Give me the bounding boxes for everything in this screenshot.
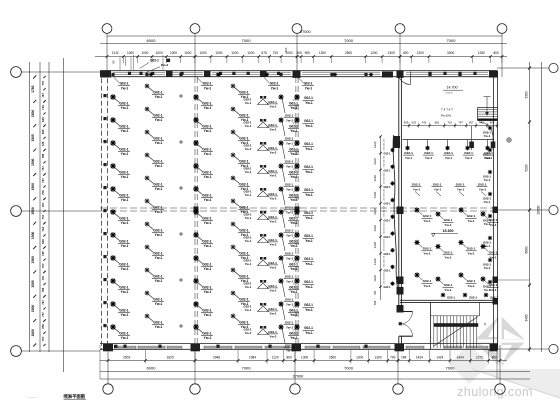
svg-text:Yw-1: Yw-1: [445, 156, 453, 160]
svg-text:G02-1: G02-1: [467, 247, 476, 251]
svg-text:645: 645: [41, 239, 45, 244]
svg-text:G02-1: G02-1: [268, 284, 277, 288]
svg-text:725: 725: [41, 251, 45, 256]
svg-text:3400: 3400: [524, 314, 528, 321]
svg-text:1220: 1220: [373, 241, 377, 248]
svg-text:410 410 410: 410 410 410: [384, 205, 386, 217]
svg-text:Yw-1: Yw-1: [484, 178, 491, 182]
svg-text:G02-1: G02-1: [304, 82, 313, 86]
svg-text:1000: 1000: [184, 51, 191, 55]
svg-text:1500: 1500: [31, 158, 35, 166]
svg-text:Yw-1: Yw-1: [467, 252, 475, 256]
svg-text:757: 757: [41, 80, 45, 85]
svg-text:G02-1: G02-1: [239, 228, 248, 232]
svg-text:G02-1: G02-1: [285, 344, 294, 348]
svg-text:Yw-1: Yw-1: [204, 175, 212, 179]
svg-text:Yw-1: Yw-1: [204, 290, 212, 294]
svg-text:1272: 1272: [476, 355, 483, 359]
svg-text:Yw-1: Yw-1: [305, 285, 313, 289]
svg-text:1200: 1200: [417, 51, 424, 55]
svg-text:Yw-1: Yw-1: [269, 289, 277, 293]
svg-text:300: 300: [296, 51, 302, 55]
svg-text:757: 757: [41, 214, 45, 219]
svg-text:G02-1: G02-1: [412, 183, 421, 187]
svg-text:G02-1: G02-1: [467, 279, 476, 283]
svg-text:G02-1: G02-1: [153, 113, 162, 117]
svg-text:Pw d5%: Pw d5%: [441, 113, 452, 117]
svg-text:780: 780: [373, 290, 377, 295]
svg-text:G02-1: G02-1: [285, 160, 294, 164]
svg-text:G02-1: G02-1: [239, 251, 248, 255]
svg-text:G02-1: G02-1: [384, 169, 392, 172]
svg-text:743: 743: [41, 227, 45, 232]
svg-text:Yw-1: Yw-1: [241, 233, 249, 237]
svg-text:G02-1: G02-1: [268, 307, 277, 311]
svg-text:Yw-1: Yw-1: [155, 210, 163, 214]
svg-text:Yw-1: Yw-1: [425, 156, 433, 160]
svg-text:Yw-1: Yw-1: [286, 187, 293, 191]
svg-text:Yw-1: Yw-1: [241, 325, 249, 329]
svg-text:1300: 1300: [375, 355, 382, 359]
svg-text:7000: 7000: [242, 366, 252, 371]
svg-text:G02-1: G02-1: [285, 229, 294, 233]
svg-text:Yw-1: Yw-1: [155, 279, 163, 283]
svg-text:G02-1: G02-1: [202, 170, 211, 174]
svg-text:Yw-1: Yw-1: [269, 220, 277, 224]
svg-text:Yw-1: Yw-1: [286, 164, 293, 168]
svg-text:784: 784: [401, 355, 407, 359]
svg-text:767: 767: [41, 93, 45, 98]
svg-text:Yw-1: Yw-1: [121, 221, 129, 225]
svg-text:Yw-1: Yw-1: [290, 336, 298, 340]
svg-text:Yw-1: Yw-1: [241, 141, 249, 145]
svg-text:767: 767: [41, 300, 45, 305]
svg-text:1600: 1600: [31, 329, 35, 337]
svg-text:G02-1: G02-1: [285, 183, 294, 187]
svg-text:G02-1: G02-1: [464, 151, 473, 155]
svg-text:1500: 1500: [31, 256, 35, 264]
svg-text:Yw-1: Yw-1: [121, 267, 129, 271]
svg-text:G02-1: G02-1: [289, 216, 298, 220]
svg-text:Yw-1: Yw-1: [269, 151, 277, 155]
svg-text:742: 742: [422, 121, 427, 125]
svg-text:G02-1: G02-1: [202, 216, 211, 220]
svg-text:G02-1: G02-1: [304, 188, 313, 192]
svg-text:Yw-1: Yw-1: [290, 267, 298, 271]
svg-text:G02-1: G02-1: [119, 239, 128, 243]
svg-text:xxxxxx: xxxxxx: [445, 92, 453, 95]
svg-text:G02-1: G02-1: [433, 183, 442, 187]
svg-text:Yw-1: Yw-1: [245, 147, 252, 151]
svg-text:G02-1: G02-1: [239, 90, 248, 94]
svg-text:7000: 7000: [242, 38, 252, 43]
svg-text:G02-1: G02-1: [268, 100, 277, 104]
svg-text:675: 675: [261, 51, 267, 55]
svg-text:Yw-1: Yw-1: [305, 124, 313, 128]
svg-text:G02-1: G02-1: [120, 82, 129, 86]
svg-text:G02-1: G02-1: [289, 285, 298, 289]
svg-text:G02-1: G02-1: [150, 59, 159, 63]
svg-text:Yw-1: Yw-1: [155, 95, 163, 99]
svg-text:743: 743: [41, 105, 45, 110]
svg-text:508: 508: [373, 300, 377, 305]
svg-text:981: 981: [435, 121, 440, 125]
svg-text:Yw-1: Yw-1: [204, 336, 212, 340]
svg-text:767: 767: [41, 202, 45, 207]
svg-text:G02-1: G02-1: [304, 142, 313, 146]
svg-text:Yw-1: Yw-1: [241, 118, 249, 122]
svg-text:15.300: 15.300: [443, 229, 454, 233]
svg-text:1220: 1220: [373, 158, 377, 165]
svg-text:G02-1: G02-1: [268, 238, 277, 242]
svg-text:G02-1: G02-1: [119, 331, 128, 335]
svg-text:7000: 7000: [344, 38, 354, 43]
svg-text:Yw-1: Yw-1: [305, 308, 313, 312]
svg-text:7000: 7000: [447, 38, 457, 43]
svg-text:G02-1: G02-1: [268, 215, 277, 219]
svg-text:Yw-1: Yw-1: [489, 223, 497, 227]
svg-text:1000: 1000: [141, 51, 148, 55]
svg-text:Yw-1: Yw-1: [290, 290, 298, 294]
svg-text:G02-1: G02-1: [239, 136, 248, 140]
svg-text:G02-1: G02-1: [153, 205, 162, 209]
svg-text:Yw-1: Yw-1: [286, 233, 293, 237]
svg-text:6000: 6000: [147, 366, 157, 371]
svg-text:G02-1: G02-1: [119, 308, 128, 312]
svg-text:Yw-1: Yw-1: [305, 239, 313, 243]
svg-text:900: 900: [305, 51, 311, 55]
svg-text:2500: 2500: [345, 51, 352, 55]
svg-text:Yw-1: Yw-1: [290, 152, 298, 156]
svg-text:663: 663: [490, 121, 495, 125]
svg-text:G02-1: G02-1: [239, 205, 248, 209]
svg-text:Yw-1: Yw-1: [155, 302, 163, 306]
svg-text:Yw-1: Yw-1: [204, 198, 212, 202]
svg-text:G02-1: G02-1: [153, 136, 162, 140]
svg-text:1500: 1500: [31, 232, 35, 240]
svg-text:410 410 410: 410 410 410: [384, 272, 386, 284]
svg-text:700: 700: [390, 355, 396, 359]
svg-text:14.700: 14.700: [447, 86, 458, 90]
svg-text:Yw-1: Yw-1: [286, 210, 293, 214]
svg-text:G02-1: G02-1: [384, 203, 392, 206]
svg-text:Yw-1: Yw-1: [305, 331, 313, 335]
svg-text:G02-1: G02-1: [239, 274, 248, 278]
svg-text:Yw-1: Yw-1: [489, 288, 497, 292]
svg-text:Yw-1: Yw-1: [269, 312, 277, 316]
svg-text:758: 758: [41, 190, 45, 195]
svg-text:G02-1: G02-1: [289, 170, 298, 174]
svg-text:Yw-1: Yw-1: [286, 348, 293, 352]
svg-text:757: 757: [41, 166, 45, 171]
svg-text:G02-1: G02-1: [289, 331, 298, 335]
svg-text:410 410 410: 410 410 410: [384, 155, 386, 167]
svg-text:Yw-1: Yw-1: [245, 308, 252, 312]
svg-text:7000: 7000: [446, 366, 456, 371]
svg-text:Yw-1: Yw-1: [121, 86, 129, 90]
svg-text:Yw-1: Yw-1: [245, 262, 252, 266]
svg-text:27000: 27000: [293, 375, 304, 379]
svg-text:410 410 410: 410 410 410: [384, 222, 386, 234]
svg-text:Yw-1: Yw-1: [241, 302, 249, 306]
svg-text:Yw-1: Yw-1: [286, 118, 293, 122]
svg-text:Yw-1: Yw-1: [305, 86, 313, 90]
svg-text:1220: 1220: [373, 225, 377, 232]
svg-text:410 410 410: 410 410 410: [384, 138, 386, 150]
svg-text:G02-1: G02-1: [202, 239, 211, 243]
svg-text:Yw-1: Yw-1: [245, 193, 252, 197]
svg-text:Yw-1: Yw-1: [484, 266, 491, 270]
svg-text:Yw-1: Yw-1: [434, 187, 442, 191]
svg-text:1000: 1000: [199, 51, 206, 55]
svg-text:Yw-1: Yw-1: [286, 325, 293, 329]
svg-text:20800: 20800: [536, 205, 540, 214]
svg-text:G02-1: G02-1: [119, 101, 128, 105]
svg-text:Yw-1: Yw-1: [121, 198, 129, 202]
svg-text:Yw-1: Yw-1: [305, 262, 313, 266]
svg-text:G02-1: G02-1: [467, 214, 476, 218]
svg-text:1200: 1200: [356, 355, 363, 359]
svg-text:410 410 410: 410 410 410: [384, 255, 386, 267]
svg-text:Yw-1: Yw-1: [121, 129, 129, 133]
svg-text:G02-1: G02-1: [423, 247, 432, 251]
svg-text:G02-1: G02-1: [304, 234, 313, 238]
svg-text:G02-1: G02-1: [202, 193, 211, 197]
svg-text:1220: 1220: [373, 208, 377, 215]
svg-text:G02-1: G02-1: [202, 147, 211, 151]
svg-text:757: 757: [41, 263, 45, 268]
svg-text:1505: 1505: [31, 134, 35, 142]
svg-text:G02-1: G02-1: [202, 331, 211, 335]
svg-text:1424: 1424: [416, 355, 423, 359]
svg-text:Yw-1: Yw-1: [241, 279, 249, 283]
svg-text:Yw-1: Yw-1: [305, 170, 313, 174]
svg-text:G02-1: G02-1: [384, 186, 392, 189]
svg-text:G02-1: G02-1: [289, 262, 298, 266]
svg-text:Yw-1: Yw-1: [290, 198, 298, 202]
svg-text:Yw-1: Yw-1: [457, 187, 465, 191]
svg-text:1220: 1220: [373, 175, 377, 182]
svg-text:725: 725: [273, 51, 279, 55]
svg-text:G02-1: G02-1: [304, 303, 313, 307]
svg-text:747: 747: [458, 121, 463, 125]
svg-text:G02-1: G02-1: [285, 137, 294, 141]
svg-text:Yw-1: Yw-1: [405, 156, 413, 160]
svg-text:G02-1: G02-1: [444, 218, 453, 222]
svg-text:6800: 6800: [524, 246, 528, 253]
svg-text:Yw-1: Yw-1: [204, 221, 212, 225]
svg-text:1500: 1500: [31, 183, 35, 191]
svg-text:6000: 6000: [147, 38, 157, 43]
svg-text:G02-1: G02-1: [304, 96, 313, 100]
svg-text:2F: 2F: [483, 322, 487, 326]
svg-text:Yw-1: Yw-1: [204, 129, 212, 133]
svg-text:Yw-1: Yw-1: [121, 336, 129, 340]
svg-text:Yw-1: Yw-1: [290, 175, 298, 179]
svg-text:Yw-1: Yw-1: [484, 134, 491, 138]
svg-text:Yw-1: Yw-1: [305, 193, 313, 197]
svg-text:Yw-1: Yw-1: [305, 216, 313, 220]
svg-text:Yw-1: Yw-1: [245, 239, 252, 243]
svg-text:3325: 3325: [167, 355, 174, 359]
svg-text:G02-1: G02-1: [285, 321, 294, 325]
svg-text:Yw-1: Yw-1: [465, 156, 473, 160]
svg-text:G02-1: G02-1: [447, 296, 455, 300]
svg-text:G02-1: G02-1: [153, 251, 162, 255]
svg-text:G02-1: G02-1: [304, 165, 313, 169]
svg-text:Yw-1: Yw-1: [484, 244, 491, 248]
svg-text:G02-1: G02-1: [469, 296, 477, 300]
svg-text:G02-1: G02-1: [119, 170, 128, 174]
svg-text:G02-1: G02-1: [239, 113, 248, 117]
svg-text:Yw-1: Yw-1: [121, 175, 129, 179]
svg-text:Yw-1: Yw-1: [155, 141, 163, 145]
svg-text:G02-1: G02-1: [268, 330, 277, 334]
svg-text:G02-1: G02-1: [456, 183, 465, 187]
svg-text:719: 719: [447, 121, 452, 125]
svg-text:Yw-1: Yw-1: [269, 174, 277, 178]
svg-text:1300: 1300: [388, 51, 395, 55]
svg-text:1780: 1780: [31, 85, 35, 93]
svg-text:410 410 410: 410 410 410: [384, 172, 386, 184]
svg-text:G02-1: G02-1: [119, 216, 128, 220]
svg-text:Yw-1: Yw-1: [204, 86, 212, 90]
svg-text:Yw-1: Yw-1: [484, 156, 491, 160]
svg-text:G02-1: G02-1: [289, 239, 298, 243]
svg-text:G02-1: G02-1: [119, 193, 128, 197]
svg-text:Yw-1: Yw-1: [204, 106, 212, 110]
svg-text:Yw-1: Yw-1: [484, 222, 491, 226]
svg-text:G02-1: G02-1: [239, 297, 248, 301]
svg-text:G02-1: G02-1: [268, 192, 277, 196]
svg-text:758: 758: [41, 287, 45, 292]
svg-text:1424: 1424: [457, 355, 464, 359]
svg-text:Yw-1: Yw-1: [204, 313, 212, 317]
svg-text:200: 200: [284, 47, 288, 52]
svg-text:1000: 1000: [156, 51, 163, 55]
svg-text:90: 90: [112, 60, 116, 64]
svg-text:G02-1: G02-1: [119, 147, 128, 151]
svg-text:1500: 1500: [31, 207, 35, 215]
svg-text:410 410 410: 410 410 410: [384, 188, 386, 200]
svg-text:G02-1: G02-1: [384, 286, 392, 289]
svg-text:G02-1: G02-1: [289, 193, 298, 197]
svg-text:Yw-1: Yw-1: [286, 256, 293, 260]
svg-text:Yw-1: Yw-1: [241, 187, 249, 191]
svg-text:Pw-2: Pw-2: [161, 63, 169, 67]
svg-text:Yw-1: Yw-1: [269, 243, 277, 247]
svg-text:Yw-1: Yw-1: [269, 128, 277, 132]
svg-text:657: 657: [469, 121, 474, 125]
svg-text:643: 643: [41, 117, 45, 122]
svg-text:~~~~~~: ~~~~~~: [27, 395, 37, 399]
svg-text:G02-1: G02-1: [289, 147, 298, 151]
svg-text:Yw-1: Yw-1: [444, 288, 452, 292]
svg-text:Yw-1: Yw-1: [444, 223, 452, 227]
svg-text:G02-1: G02-1: [153, 159, 162, 163]
svg-text:Yw-1: Yw-1: [155, 164, 163, 168]
svg-text:Yw-1: Yw-1: [305, 147, 313, 151]
svg-text:G02-1: G02-1: [384, 236, 392, 239]
svg-text:1500: 1500: [31, 110, 35, 118]
svg-text:1220: 1220: [373, 141, 377, 148]
svg-text:Yw-1: Yw-1: [155, 187, 163, 191]
svg-text:Yw-1: Yw-1: [286, 141, 293, 145]
svg-text:G02-1: G02-1: [384, 253, 392, 256]
svg-text:喷淋平面图: 喷淋平面图: [64, 393, 86, 400]
svg-text:1000: 1000: [247, 51, 254, 55]
svg-text:Yw-1: Yw-1: [269, 197, 277, 201]
svg-text:Yw-1: Yw-1: [241, 95, 249, 99]
svg-text:G02-1: G02-1: [202, 124, 211, 128]
svg-text:Yw-1: Yw-1: [245, 101, 252, 105]
svg-text:G02-1: G02-1: [289, 124, 298, 128]
svg-text:Yw-1: Yw-1: [204, 152, 212, 156]
svg-text:Yw-1: Yw-1: [290, 244, 298, 248]
svg-text:2948: 2948: [213, 355, 220, 359]
svg-text:G02-1: G02-1: [153, 228, 162, 232]
svg-text:1500: 1500: [31, 305, 35, 313]
svg-text:1142: 1142: [112, 51, 119, 55]
svg-text:G02-1: G02-1: [153, 297, 162, 301]
svg-text:Yw-1: Yw-1: [155, 233, 163, 237]
svg-text:G02-1: G02-1: [239, 182, 248, 186]
svg-text:5200: 5200: [524, 164, 528, 171]
svg-text:G02-1: G02-1: [444, 251, 453, 255]
svg-text:800: 800: [287, 355, 293, 359]
svg-text:1505: 1505: [31, 280, 35, 288]
svg-text:403: 403: [404, 121, 409, 125]
svg-text:T 4 T 4 T: T 4 T 4 T: [441, 108, 453, 112]
svg-text:800: 800: [403, 51, 409, 55]
svg-text:27000: 27000: [300, 30, 311, 34]
svg-text:G02-1: G02-1: [384, 270, 392, 273]
svg-text:1424: 1424: [436, 355, 443, 359]
svg-text:G02-1: G02-1: [268, 146, 277, 150]
svg-text:G02-1: G02-1: [424, 151, 433, 155]
svg-text:800: 800: [492, 355, 498, 359]
svg-text:633: 633: [412, 121, 417, 125]
svg-text:G02-1: G02-1: [153, 274, 162, 278]
svg-text:Yw-1: Yw-1: [290, 221, 298, 225]
svg-text:G02-1: G02-1: [268, 261, 277, 265]
svg-text:Yw-1: Yw-1: [245, 331, 252, 335]
svg-text:G02-1: G02-1: [202, 308, 211, 312]
svg-text:G02-1: G02-1: [384, 219, 392, 222]
svg-text:725: 725: [41, 141, 45, 146]
svg-text:Yw-1: Yw-1: [484, 288, 491, 292]
svg-text:Yw-1: Yw-1: [290, 106, 298, 110]
svg-text:G02-1: G02-1: [202, 262, 211, 266]
svg-text:Yw-1: Yw-1: [423, 219, 431, 223]
svg-text:G02-1: G02-1: [203, 82, 212, 86]
svg-text:767: 767: [41, 275, 45, 280]
svg-text:G02-1: G02-1: [423, 279, 432, 283]
svg-text:Yw-1: Yw-1: [290, 129, 298, 133]
svg-text:G02-1: G02-1: [304, 119, 313, 123]
svg-text:Yw-1: Yw-1: [423, 284, 431, 288]
svg-text:Yw-1: Yw-1: [479, 187, 487, 191]
svg-text:Yw-1: Yw-1: [241, 256, 249, 260]
svg-text:G02-1: G02-1: [490, 296, 498, 300]
svg-text:Yw-1: Yw-1: [121, 106, 129, 110]
svg-text:Yw-1: Yw-1: [204, 244, 212, 248]
svg-text:Yw-1: Yw-1: [467, 219, 475, 223]
svg-text:G02-1: G02-1: [285, 298, 294, 302]
svg-text:1220: 1220: [373, 258, 377, 265]
svg-text:2500: 2500: [329, 355, 336, 359]
svg-text:G02-1: G02-1: [153, 90, 162, 94]
